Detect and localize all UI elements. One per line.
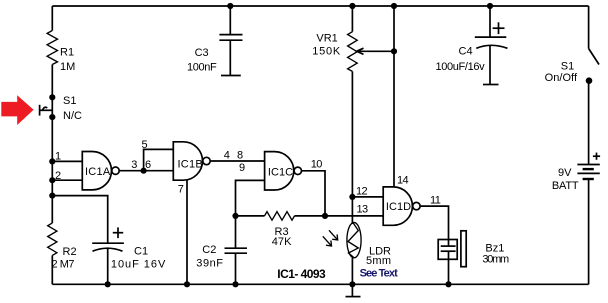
capacitor C4 <box>493 27 505 29</box>
ground symbol below rail <box>351 284 353 296</box>
wire IC1C pin 9 <box>236 180 265 216</box>
svg-text:39nF: 39nF <box>196 258 223 270</box>
potentiometer VR1 <box>348 32 358 72</box>
wire left rail upper <box>51 6 53 31</box>
svg-text:C3: C3 <box>195 47 209 59</box>
wire battery to ground rail <box>588 179 590 284</box>
svg-text:BATT: BATT <box>552 180 579 192</box>
op-amp gate IC1B <box>173 142 202 180</box>
svg-text:2: 2 <box>55 170 61 182</box>
node buzzer ground junction <box>445 281 451 287</box>
wire R1 to S1 <box>51 65 53 98</box>
wire C2 to ground rail <box>235 253 237 284</box>
wire C3 top <box>229 6 231 35</box>
svg-text:1M: 1M <box>60 61 75 73</box>
switch S1 N/C <box>49 94 55 100</box>
capacitor C2 <box>225 247 248 249</box>
node VR1 supply junction <box>349 3 355 9</box>
svg-text:S1: S1 <box>63 95 76 107</box>
ground C4 <box>483 84 499 86</box>
wire IC1A pin 2 <box>52 179 82 181</box>
svg-text:12: 12 <box>356 185 368 197</box>
svg-text:1: 1 <box>55 151 61 163</box>
svg-text:9V: 9V <box>558 167 572 179</box>
wire C1 branch <box>52 196 107 244</box>
svg-text:30mm: 30mm <box>482 253 509 265</box>
node pin 3/5/6 junction <box>141 168 147 174</box>
svg-text:C4: C4 <box>459 46 473 58</box>
switch S1 On/Off <box>589 49 599 65</box>
svg-text:IC1C: IC1C <box>268 167 293 179</box>
svg-text:100uF/16v: 100uF/16v <box>436 61 486 73</box>
wire S1 to pin1 node <box>51 117 53 196</box>
wire C2 top <box>235 216 237 248</box>
wire pin12 node to LDR <box>351 197 353 224</box>
svg-text:14: 14 <box>397 175 409 187</box>
wire switch to battery <box>588 81 590 165</box>
wire right rail top <box>588 6 590 49</box>
wire pin 14 <box>393 6 395 187</box>
svg-text:8: 8 <box>237 150 243 162</box>
svg-text:9: 9 <box>239 162 245 174</box>
node C1 ground junction <box>105 281 111 287</box>
svg-text:10: 10 <box>311 159 323 171</box>
wire VR1 top <box>351 6 353 32</box>
node pin2 junction <box>49 177 55 183</box>
svg-text:On/Off: On/Off <box>545 72 578 84</box>
svg-text:100nF: 100nF <box>187 62 217 74</box>
wire IC1A pin 1 <box>52 160 82 162</box>
svg-text:IC1- 4093: IC1- 4093 <box>277 267 326 281</box>
wire C1 to ground rail <box>107 248 109 284</box>
svg-text:VR1: VR1 <box>316 33 337 45</box>
wire R2 to ground rail <box>51 255 53 284</box>
node C2 ground junction <box>232 281 238 287</box>
wire IC1B pin 7 to ground <box>186 180 188 284</box>
svg-text:IC1A: IC1A <box>85 166 111 178</box>
svg-text:N/C: N/C <box>63 110 82 122</box>
wire node to R2 <box>51 196 53 223</box>
svg-text:150K: 150K <box>312 45 341 57</box>
wire top supply rail <box>52 5 588 7</box>
svg-text:11: 11 <box>430 195 441 207</box>
svg-text:S1: S1 <box>561 60 574 72</box>
node pin7 ground junction <box>184 281 190 287</box>
wire buzzer to ground rail <box>448 251 450 284</box>
svg-text:2 M7: 2 M7 <box>52 258 75 270</box>
op-amp gate IC1A <box>82 152 111 190</box>
red arrow pointing at S1 <box>1 95 33 125</box>
node C4 supply junction <box>487 3 493 9</box>
node A R3/pin10/pin13 junction <box>322 213 328 219</box>
capacitor C3 <box>219 34 242 36</box>
svg-text:IC1D: IC1D <box>386 201 411 213</box>
LDR <box>347 222 361 257</box>
svg-text:R2: R2 <box>63 246 77 258</box>
node C3 supply junction <box>227 3 233 9</box>
node pin1 junction <box>49 158 55 164</box>
svg-text:C1: C1 <box>134 245 148 257</box>
wire bottom ground rail <box>52 283 588 285</box>
svg-text:IC1B: IC1B <box>178 158 203 170</box>
wire C4 bottom <box>489 46 491 85</box>
svg-text:C2: C2 <box>202 244 216 256</box>
capacitor C1 <box>113 232 123 234</box>
wire C3 bottom <box>229 40 231 75</box>
svg-text:47K: 47K <box>272 236 292 248</box>
svg-text:5: 5 <box>142 139 148 151</box>
svg-text:6: 6 <box>145 159 151 171</box>
wire IC1C output pin 10 <box>302 171 325 216</box>
node VR1 wiper junction <box>391 48 397 54</box>
node pin14 supply junction <box>391 3 397 9</box>
battery BATT 9V <box>593 155 600 157</box>
ground C3 <box>221 75 241 77</box>
svg-text:13: 13 <box>357 203 369 215</box>
wire VR1 bottom to pin12 node <box>351 71 353 196</box>
resistor R1 <box>47 31 57 65</box>
wire R3 to node A <box>295 215 326 217</box>
svg-text:4: 4 <box>224 150 230 162</box>
svg-text:R1: R1 <box>60 47 74 59</box>
wire IC1D pin 12 <box>352 196 383 198</box>
wire IC1B pin 6 <box>144 170 174 172</box>
wire IC1A output pin 3 <box>120 170 144 172</box>
wire IC1B output pin 4 to pin 8 <box>211 160 265 162</box>
resistor R2 <box>48 223 57 255</box>
wire C4 top <box>489 6 491 37</box>
wire node A to IC1D pin 13 <box>325 215 383 217</box>
wire pin9 node to R3 <box>236 215 265 217</box>
node LDR ground junction <box>349 281 355 287</box>
node pin9/R3/C2 junction <box>232 213 238 219</box>
svg-text:10uF 16V: 10uF 16V <box>111 258 166 270</box>
light arrows at LDR <box>329 230 338 240</box>
resistor R3 <box>265 212 295 221</box>
node pin 12 junction <box>349 194 355 200</box>
svg-text:3: 3 <box>131 159 137 171</box>
wire IC1D output pin 11 <box>421 206 449 239</box>
op-amp gate IC1D <box>383 187 412 225</box>
svg-text:See Text: See Text <box>360 268 399 280</box>
op-amp gate IC1C <box>265 152 294 190</box>
wire LDR to ground rail <box>351 258 353 284</box>
node C1 branch junction <box>49 193 55 199</box>
wire IC1B pin 5 jog <box>144 149 174 170</box>
svg-text:5mm: 5mm <box>366 255 391 267</box>
svg-text:7: 7 <box>178 184 184 196</box>
buzzer Bz1 <box>448 240 450 247</box>
